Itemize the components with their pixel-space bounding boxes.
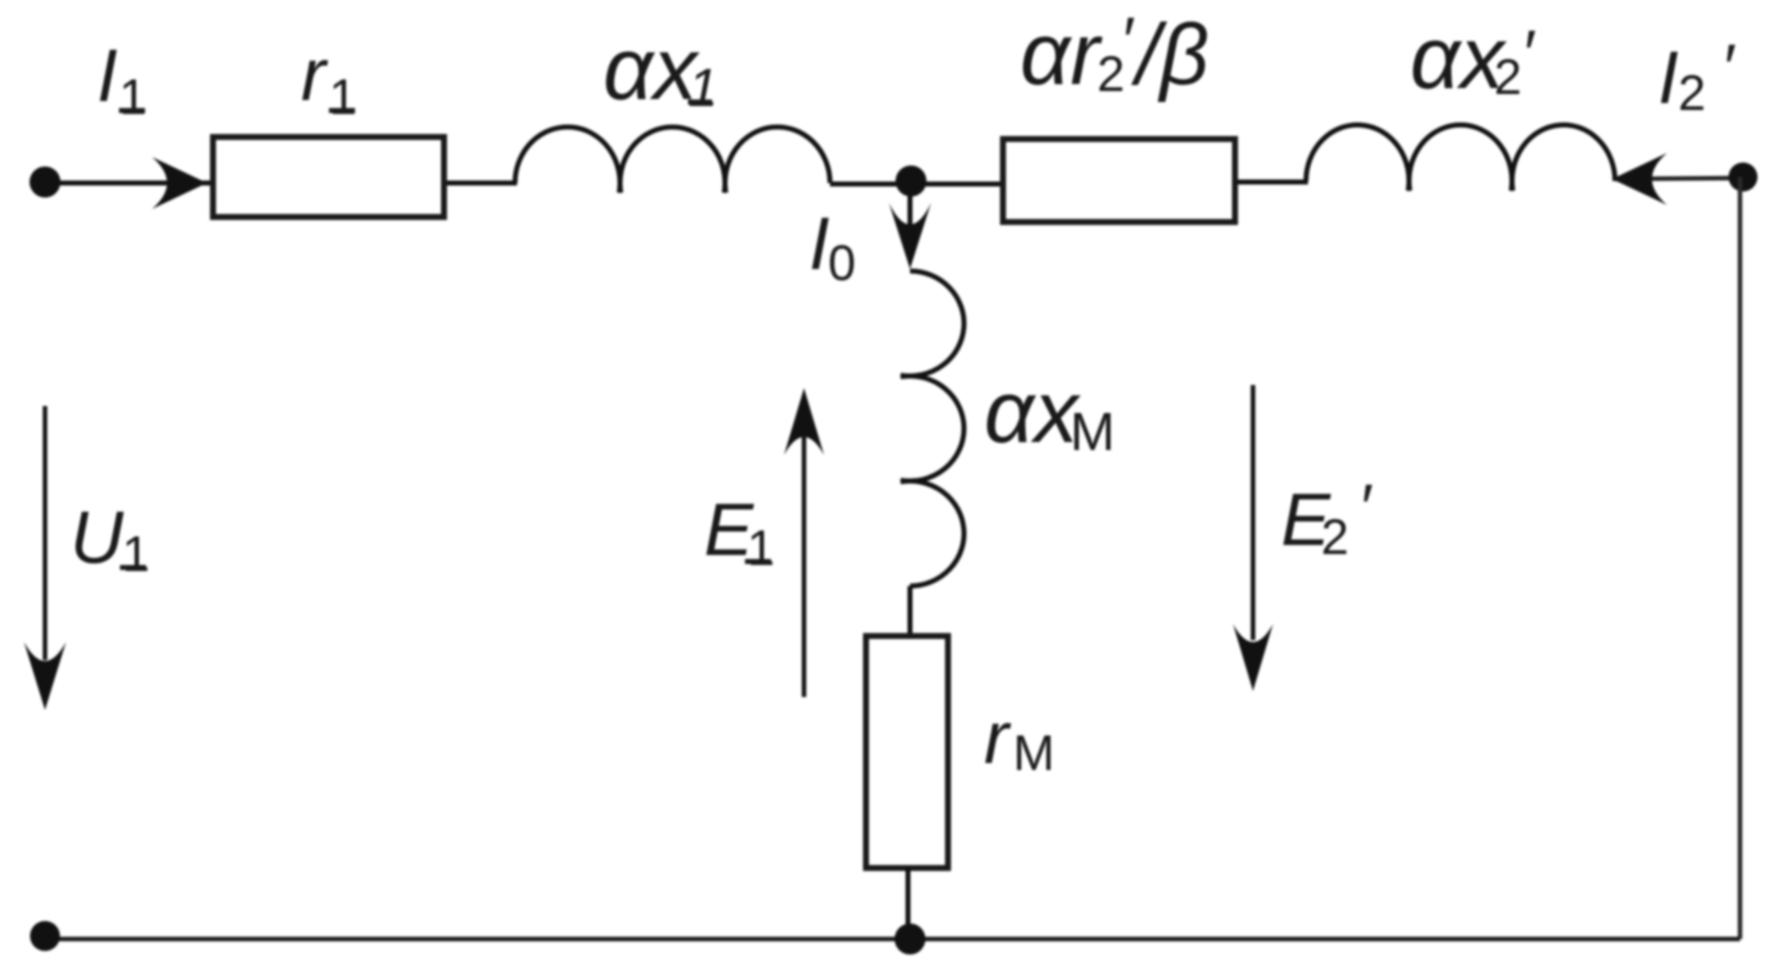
svg-text:′: ′ — [1721, 30, 1736, 104]
wire: r1 to inductor ax1 — [447, 181, 517, 186]
svg-text:2: 2 — [1321, 509, 1349, 565]
svg-text:′: ′ — [1358, 470, 1373, 544]
svg-text:I: I — [97, 34, 118, 117]
svg-text:r: r — [984, 696, 1012, 779]
wire: inductor axM to resistor rM — [908, 586, 913, 636]
svg-text:M: M — [1013, 725, 1055, 781]
svg-text:αx: αx — [984, 362, 1081, 461]
wire: bottom rail — [45, 937, 1740, 942]
node: right input terminal (top) — [1729, 163, 1758, 192]
resistor r1 — [213, 137, 444, 217]
node: bottom left terminal — [30, 921, 60, 951]
svg-text:1: 1 — [122, 526, 150, 582]
svg-text:1: 1 — [688, 58, 718, 118]
arrowhead: current I1 direction — [152, 157, 207, 209]
svg-text:1: 1 — [119, 69, 147, 125]
arrow: voltage U1 (pointing down) — [43, 406, 48, 660]
svg-text:αx: αx — [603, 19, 700, 118]
node A: junction of magnetizing branch — [896, 166, 927, 197]
node: bottom junction of magnetizing branch — [895, 924, 926, 955]
wire: left terminal to resistor r1 — [45, 181, 210, 186]
wire: node A down into magnetizing branch (I0 shaft) — [908, 185, 913, 235]
svg-text:2: 2 — [1494, 49, 1522, 105]
svg-text:αr: αr — [1020, 4, 1103, 103]
svg-text:I: I — [1658, 36, 1679, 119]
arrow: emf E2' (pointing down) — [1251, 385, 1256, 640]
resistor ar2'/beta (rotor resistance) — [1003, 139, 1235, 222]
svg-text:M: M — [1070, 402, 1115, 462]
wire: right side vertical return — [1738, 177, 1743, 939]
svg-text:αx: αx — [1410, 8, 1507, 107]
svg-text:/β: /β — [1131, 7, 1209, 103]
node: left input terminal (top) — [30, 167, 61, 198]
svg-text:r: r — [301, 33, 329, 116]
inductor ax1 (stator leakage reactance) — [515, 127, 830, 193]
svg-text:U: U — [70, 496, 124, 579]
svg-text:1: 1 — [747, 520, 775, 576]
svg-text:2: 2 — [1678, 65, 1706, 121]
svg-text:1: 1 — [329, 69, 357, 125]
wire: resistor rM to bottom rail — [906, 868, 911, 939]
arrow: emf E1 (pointing up) — [802, 435, 807, 697]
wire: inductor ax1 to node A — [830, 182, 1000, 187]
svg-text:′: ′ — [1521, 16, 1536, 90]
arrowhead: current I2' direction — [1612, 153, 1667, 205]
inductor ax2' (rotor leakage reactance) — [1306, 125, 1615, 191]
svg-text:0: 0 — [828, 235, 856, 291]
svg-text:′: ′ — [1120, 3, 1135, 77]
wire: right terminal to inductor ax2' — [1615, 178, 1743, 179]
resistor rM (magnetizing loss resistance) — [866, 636, 948, 868]
arrowhead: current I0 direction — [889, 203, 931, 269]
inductor axM (magnetizing reactance) — [901, 271, 964, 586]
wire: resistor ar2'/beta to inductor ax2' — [1238, 180, 1308, 185]
svg-text:I: I — [809, 202, 830, 285]
